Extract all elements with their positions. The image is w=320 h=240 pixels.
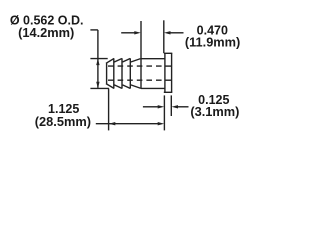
OD top extension line bbox=[90, 58, 107, 60]
barb bottom slant 1 bbox=[114, 85, 122, 89]
0.470 arrowhead left bbox=[164, 31, 171, 34]
barb back face 3 bbox=[129, 58, 131, 88]
bore through flange bottom bbox=[165, 79, 172, 81]
bore through flange top bbox=[165, 65, 172, 67]
barb top slant 3 bbox=[131, 59, 141, 63]
flange right face bbox=[171, 53, 173, 92]
body bottom edge bbox=[141, 87, 165, 89]
0.470 left extension line bbox=[140, 21, 142, 58]
0.125 dimension line right stub bbox=[178, 106, 189, 108]
1.125 dimension line bbox=[96, 123, 159, 125]
0.470 arrowhead right bbox=[134, 31, 141, 34]
svg-text:(14.2mm): (14.2mm) bbox=[18, 25, 74, 40]
hidden bore top (dashed) bbox=[108, 65, 165, 67]
OD leader horizontal from text bbox=[90, 29, 98, 31]
hidden bore bottom (dashed) bbox=[108, 79, 165, 81]
barb top slant 1 bbox=[114, 59, 122, 63]
flange bottom edge bbox=[164, 91, 173, 93]
nose top chamfer bbox=[106, 59, 114, 64]
OD leader vertical bbox=[97, 30, 99, 59]
1.125 arrowhead right bbox=[158, 122, 165, 125]
barb back face 2 bbox=[121, 58, 123, 88]
nose face (left end of insert) bbox=[106, 63, 108, 84]
0.470 dimension line left stub bbox=[121, 32, 135, 34]
OD bottom extension line bbox=[90, 87, 109, 89]
svg-text:(3.1mm): (3.1mm) bbox=[190, 104, 239, 119]
1.125 left extension line bbox=[108, 88, 110, 130]
flange top edge bbox=[164, 52, 173, 54]
body top edge bbox=[141, 58, 165, 60]
0.125 arrowhead left bbox=[172, 105, 179, 108]
barb top slant 2 bbox=[123, 59, 131, 63]
barb bottom slant 3 bbox=[131, 85, 141, 89]
1.125 / 0.125 shared right extension line bbox=[163, 95, 165, 130]
barb bottom slant 2 bbox=[123, 85, 131, 89]
0.470 right extension line bbox=[163, 20, 165, 53]
svg-text:(11.9mm): (11.9mm) bbox=[185, 35, 240, 50]
nose bottom chamfer bbox=[106, 84, 114, 89]
0.125 arrowhead right bbox=[158, 105, 165, 108]
OD arrowhead down bbox=[96, 82, 99, 89]
0.470 dimension line right stub bbox=[170, 32, 184, 34]
flange left face bbox=[164, 53, 166, 92]
0.125 right extension line bbox=[170, 95, 172, 116]
barb back face 4 bbox=[140, 58, 142, 88]
0.125 dimension line left stub bbox=[143, 106, 159, 108]
1.125 arrowhead left bbox=[109, 122, 116, 125]
barb back face 1 bbox=[113, 58, 115, 88]
svg-text:(28.5mm): (28.5mm) bbox=[35, 114, 91, 129]
OD arrowhead up bbox=[96, 59, 99, 66]
OD dimension line (vertical, double arrow) bbox=[97, 59, 99, 88]
